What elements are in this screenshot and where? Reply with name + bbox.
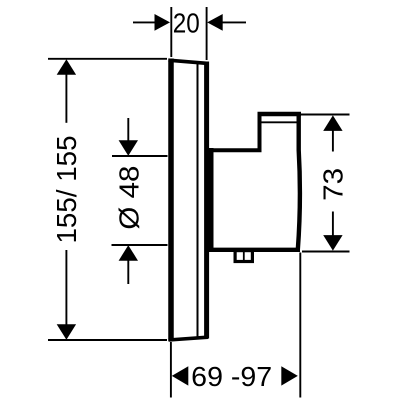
dim73 ext top [299,114,350,116]
arrow 73 up [323,115,342,130]
arrow 73 down [323,235,342,251]
knob inner line [262,121,297,123]
dia48 tail lower [127,260,129,284]
plate inner line [197,63,199,338]
body bottom edge [209,248,301,252]
dim155 ext bottom [48,339,167,341]
dim20 ext right [206,7,208,60]
body right edge [298,112,300,250]
arrow 20 left [155,14,171,31]
svg-text:155/ 155: 155/ 155 [51,136,82,244]
plate top edge [169,60,209,63]
svg-text:Ø 48: Ø 48 [114,166,145,230]
arrow dia48 up [119,245,138,261]
knob top edge [258,112,302,117]
svg-text:20: 20 [173,8,200,39]
dia48 line upper [112,155,168,157]
svg-text:73: 73 [318,168,349,201]
arrow 155 down [57,324,76,340]
dim155 ext top [48,58,167,60]
dia48 tail upper [127,118,129,141]
dim155 line upper [65,75,67,123]
dia48 line lower [112,244,168,246]
dim20 tail right [223,21,247,23]
dim155 line lower [65,250,67,326]
dim73 line upper [332,131,334,152]
plate right edge [204,62,209,339]
dim6997 ext left [170,342,172,398]
dim6997 ext right [299,253,301,398]
dim20 tail left [133,21,156,23]
nub divider [243,252,245,262]
dim20 ext left [170,7,172,57]
knob left edge [258,112,262,152]
dim73 line lower [332,212,334,237]
dim73 ext bottom [302,251,350,253]
arrow 6997 right [281,366,298,385]
plate left edge [168,59,174,342]
body top edge [209,148,262,152]
nub outline [235,251,252,262]
plate bottom edge [169,337,209,340]
arrow 6997 left [172,366,189,385]
svg-text:69 -97: 69 -97 [191,361,272,392]
body left edge [209,148,214,252]
arrow 155 up [57,59,76,75]
arrow dia48 down [119,140,138,156]
arrow 20 right [207,14,223,31]
